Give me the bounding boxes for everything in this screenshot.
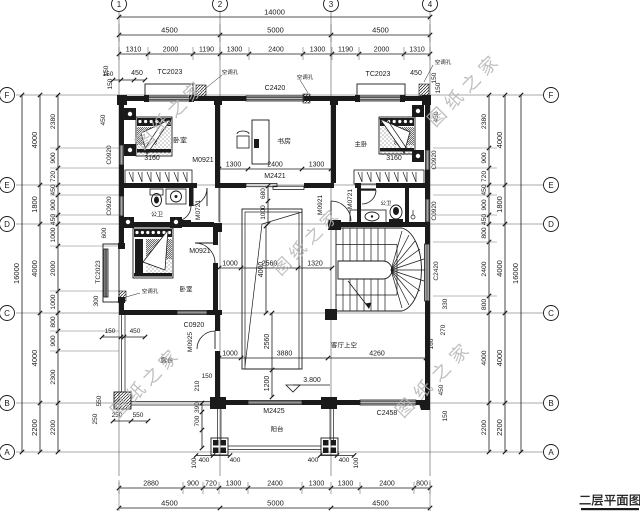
svg-text:160: 160	[428, 338, 435, 349]
room label study	[277, 138, 290, 144]
svg-text:M0925: M0925	[187, 332, 194, 352]
column at D/vestibule	[213, 223, 222, 232]
column top-left corner	[117, 95, 127, 105]
exterior wall left (axis 1)	[119, 96, 124, 145]
svg-text:M2421: M2421	[264, 173, 286, 180]
svg-text:C2420: C2420	[265, 85, 286, 92]
svg-text:4000: 4000	[481, 350, 488, 365]
window C0920 on axis C wall	[177, 311, 207, 315]
svg-text:150: 150	[103, 71, 114, 78]
room label bedroom1	[174, 137, 187, 143]
interior wall axis E	[119, 183, 197, 188]
svg-text:900: 900	[187, 481, 199, 488]
overall top dimension 14000	[119, 16, 430, 18]
axis grid line D (horizontal)	[16, 223, 543, 225]
window C2420 (top wall)	[246, 96, 304, 101]
axis bubble 1 (top)	[112, 0, 127, 12]
svg-text:400: 400	[308, 457, 319, 464]
wardrobe bedroom1	[125, 170, 192, 184]
staircase lower treads	[342, 279, 344, 311]
axis grid line E (horizontal)	[16, 184, 543, 186]
axis bubble A (left)	[0, 445, 15, 460]
room label bedroom2	[180, 286, 192, 292]
watermark lower-right	[394, 342, 470, 419]
room label bathroom2	[381, 200, 391, 205]
balcony front rail	[228, 445, 321, 447]
svg-text:B: B	[548, 399, 553, 408]
svg-text:M2425: M2425	[263, 408, 285, 415]
svg-text:2400: 2400	[267, 481, 283, 488]
svg-text:680: 680	[260, 188, 267, 199]
svg-text:1310: 1310	[409, 47, 425, 54]
svg-text:2000: 2000	[163, 47, 179, 54]
svg-text:4500: 4500	[161, 499, 178, 508]
axis bubble 4 (top)	[423, 0, 438, 12]
interior vdim 4000 (void)	[265, 226, 267, 313]
svg-text:2000: 2000	[50, 261, 57, 276]
svg-text:4500: 4500	[372, 26, 389, 35]
hatched column stair/D	[328, 220, 341, 230]
bathroom1 wall (vertical)	[189, 188, 194, 206]
svg-text:D: D	[548, 220, 554, 229]
wall bedroom1/study (vertical)	[215, 101, 220, 183]
svg-text:4000: 4000	[30, 132, 39, 149]
svg-text:A: A	[4, 448, 10, 457]
bedroom2 right wall (vertical)	[213, 227, 218, 245]
svg-text:4500: 4500	[372, 499, 389, 508]
title: second floor plan	[580, 495, 640, 506]
window C0920 right upper	[426, 150, 430, 170]
svg-text:16000: 16000	[12, 263, 21, 284]
watermark right-upper	[426, 54, 499, 128]
bottom dimension chain 2880..800	[119, 487, 430, 489]
staircase direction arrow	[348, 281, 369, 308]
exterior wall right (axis 4)	[425, 96, 430, 150]
bed master	[379, 117, 415, 154]
axis grid line B (horizontal)	[16, 402, 543, 404]
room label balcony	[271, 426, 283, 432]
right overall dimension 16000	[520, 95, 522, 452]
axis grid line C (horizontal)	[16, 312, 543, 314]
svg-text:800: 800	[481, 299, 488, 311]
column B3 (black)	[321, 397, 337, 409]
balcony column left (4 dots)	[211, 438, 228, 455]
svg-text:1800: 1800	[495, 196, 504, 213]
svg-text:TC2023: TC2023	[158, 69, 183, 76]
svg-text:C2420: C2420	[433, 261, 440, 281]
interior dim row study 1300/2400/1300	[219, 168, 331, 170]
svg-text:400: 400	[199, 457, 210, 464]
svg-text:F: F	[549, 91, 554, 100]
bay window TC2023 left wall	[103, 244, 119, 302]
svg-text:C0920: C0920	[106, 196, 113, 216]
svg-text:450: 450	[410, 70, 422, 77]
interior vdim 390/700 (balcony)	[201, 403, 203, 448]
axis bubble E (left)	[0, 178, 15, 193]
svg-text:2400: 2400	[268, 47, 284, 54]
svg-text:2200: 2200	[481, 420, 488, 435]
room label bathroom1	[151, 211, 162, 216]
svg-text:1300: 1300	[310, 47, 326, 54]
interior dim row living 1000/3880/4260	[219, 357, 426, 359]
exterior wall top (axis F)	[119, 96, 148, 101]
window C0920 left lower	[120, 196, 124, 216]
svg-text:D: D	[4, 220, 10, 229]
watermark center	[272, 208, 340, 276]
staircase upper treads	[342, 228, 344, 261]
washbasin bathroom1	[166, 189, 186, 204]
staircase inner lines	[336, 244, 397, 246]
AC hole symbol mid	[303, 94, 310, 103]
staircase outer boundary	[336, 228, 421, 311]
svg-text:450: 450	[131, 70, 143, 77]
svg-text:1800: 1800	[30, 196, 39, 213]
void railing (stairwell opening)	[242, 209, 302, 369]
svg-text:900: 900	[50, 335, 57, 347]
svg-text:720: 720	[50, 171, 57, 183]
staircase winder treads	[391, 231, 402, 270]
svg-text:3: 3	[329, 0, 334, 9]
svg-text:900: 900	[481, 199, 488, 211]
svg-text:2880: 2880	[143, 481, 159, 488]
toilet bathroom2	[390, 205, 402, 219]
svg-text:B: B	[4, 399, 9, 408]
interior vdim 680/1000	[267, 186, 269, 224]
wall study/master (vertical)	[331, 101, 336, 183]
door M0921 bedroom1	[189, 188, 207, 206]
window C2458 on axis B wall	[360, 400, 416, 405]
svg-text:150: 150	[105, 328, 116, 335]
svg-text:16000: 16000	[511, 263, 520, 284]
room label living void	[331, 342, 356, 348]
svg-text:2000: 2000	[374, 47, 390, 54]
svg-text:2560: 2560	[264, 334, 271, 350]
svg-text:2400: 2400	[267, 162, 283, 169]
axis bubble C (left)	[0, 306, 15, 321]
void diagonal	[245, 212, 302, 366]
svg-text:2380: 2380	[481, 114, 488, 129]
svg-text:800: 800	[481, 227, 488, 239]
svg-text:900: 900	[50, 199, 57, 211]
svg-text:E: E	[4, 181, 9, 190]
svg-text:1320: 1320	[307, 261, 323, 268]
svg-text:2400: 2400	[379, 481, 395, 488]
svg-text:2380: 2380	[50, 114, 57, 129]
svg-text:250: 250	[92, 413, 99, 424]
column top study-right	[330, 96, 338, 105]
svg-text:210: 210	[194, 380, 201, 391]
left minor dimension column	[57, 95, 59, 452]
svg-text:4000: 4000	[495, 260, 504, 277]
floor drain bathroom2	[411, 215, 415, 219]
watermark lower-left	[109, 348, 179, 419]
svg-text:1300: 1300	[309, 162, 325, 169]
interior wall axis D left	[119, 222, 214, 227]
window C0920 right lower	[426, 199, 430, 222]
bottom dimension row 4500/5000/4500	[119, 507, 430, 509]
svg-text:1310: 1310	[126, 47, 142, 54]
svg-text:400: 400	[339, 457, 350, 464]
balcony column right (4 dots)	[321, 438, 338, 455]
axis bubble B (right)	[544, 396, 559, 411]
door M0721 bathroom1	[176, 206, 191, 221]
toilet bathroom1	[150, 189, 163, 195]
svg-text:150: 150	[202, 373, 213, 380]
svg-text:800: 800	[416, 481, 428, 488]
svg-text:2200: 2200	[30, 419, 39, 436]
svg-text:150: 150	[431, 72, 438, 83]
bay window TC2023 top-right	[357, 84, 405, 97]
terrace parapet left	[121, 315, 123, 392]
bathroom2 left wall (vertical)	[357, 188, 361, 222]
column top-right corner	[422, 95, 431, 105]
door M0921 bedroom2	[195, 243, 215, 263]
svg-text:150: 150	[435, 82, 442, 93]
svg-text:100: 100	[191, 457, 198, 468]
svg-text:5000: 5000	[267, 499, 284, 508]
axis bubble F (left)	[0, 88, 15, 103]
axis grid line A (horizontal)	[16, 451, 543, 453]
interior dim row hall 1000/2560/1320	[219, 267, 332, 269]
staircase bottom-left column	[326, 310, 336, 320]
interior vdim 2560/1200	[271, 313, 273, 397]
svg-text:4000: 4000	[30, 350, 39, 367]
svg-text:900: 900	[481, 152, 488, 164]
svg-text:1000: 1000	[50, 227, 57, 242]
svg-text:800: 800	[50, 316, 57, 328]
room label terrace	[161, 357, 173, 363]
svg-text:1300: 1300	[226, 162, 242, 169]
svg-text:2: 2	[218, 0, 223, 9]
svg-text:C0920: C0920	[431, 150, 438, 170]
svg-text:C0920: C0920	[106, 145, 113, 165]
axis bubble D (right)	[544, 217, 559, 232]
svg-text:C: C	[4, 309, 10, 318]
column B4 corner (black)	[418, 400, 430, 410]
svg-text:C0920: C0920	[431, 201, 438, 221]
svg-text:C0920: C0920	[184, 322, 205, 329]
svg-text:1000: 1000	[260, 205, 267, 220]
svg-text:M0921: M0921	[192, 157, 214, 164]
svg-text:450: 450	[100, 114, 107, 125]
axis bubble 3 (top)	[324, 0, 339, 12]
svg-text:450: 450	[481, 214, 488, 226]
wall axis C (bedroom2 bottom)	[119, 310, 177, 315]
level marker 3.800	[286, 385, 300, 392]
bed bedroom1	[136, 117, 172, 156]
axis bubble 2 (top)	[213, 0, 228, 12]
svg-text:2300: 2300	[50, 369, 57, 384]
svg-text:450: 450	[50, 214, 57, 226]
svg-text:2200: 2200	[495, 419, 504, 436]
svg-text:1300: 1300	[338, 481, 354, 488]
svg-text:3.800: 3.800	[303, 377, 321, 384]
svg-text:4000: 4000	[495, 350, 504, 367]
wardrobe master	[354, 170, 424, 184]
bay window TC2023 top-left	[145, 84, 193, 97]
top dimension row 1310..1310	[119, 53, 430, 55]
axis bubble C (right)	[544, 306, 559, 321]
svg-text:3160: 3160	[144, 155, 160, 162]
svg-text:720: 720	[481, 171, 488, 183]
door M0921 master	[331, 201, 351, 221]
svg-text:TC2023: TC2023	[95, 260, 102, 284]
svg-text:TC2023: TC2023	[366, 71, 391, 78]
AC hole label bedroom2	[142, 288, 158, 293]
svg-text:720: 720	[205, 481, 217, 488]
vestibule line	[218, 188, 220, 222]
axis grid line 2 (vertical)	[219, 12, 221, 476]
svg-text:4500: 4500	[161, 26, 178, 35]
right minor dimension column	[488, 95, 490, 452]
bathroom2 shower partition	[405, 188, 409, 222]
column B2 (black)	[210, 397, 226, 409]
door M0721 bathroom2	[362, 190, 376, 204]
balcony side rail right	[333, 409, 335, 440]
svg-text:M0721: M0721	[195, 200, 202, 220]
svg-text:1190: 1190	[338, 47, 353, 54]
svg-text:270: 270	[440, 324, 447, 335]
axis grid line 1 (vertical)	[118, 12, 120, 476]
AC hole symbol left	[196, 85, 206, 97]
hall/terrace wall (vertical, with M0925 opening)	[215, 315, 220, 331]
terrace parapet corner column (hatched)	[114, 392, 131, 409]
svg-text:4000: 4000	[30, 260, 39, 277]
svg-text:1190: 1190	[199, 47, 214, 54]
door-window M2425 on axis B wall	[248, 401, 302, 405]
axis grid line 3 (vertical)	[330, 12, 332, 476]
svg-text:A: A	[548, 448, 554, 457]
AC hole label top-right	[435, 59, 451, 64]
svg-text:700: 700	[194, 415, 201, 426]
svg-text:1: 1	[117, 0, 122, 9]
window C2420 right (stair)	[425, 244, 430, 301]
interior wall axis D right	[328, 222, 430, 227]
column top study-left	[214, 96, 222, 105]
axis bubble B (left)	[0, 396, 15, 411]
svg-text:450: 450	[438, 384, 445, 395]
svg-text:4: 4	[428, 0, 433, 9]
svg-text:550: 550	[133, 412, 144, 419]
svg-text:1300: 1300	[309, 481, 325, 488]
left major dimension column	[39, 95, 41, 452]
svg-text:C: C	[548, 309, 554, 318]
terrace top dims 150/450	[102, 336, 145, 338]
svg-text:1300: 1300	[226, 481, 242, 488]
bed bedroom2	[133, 228, 173, 278]
room label master bedroom	[355, 141, 367, 147]
AC hole bedroom2	[119, 291, 126, 301]
svg-text:E: E	[548, 181, 553, 190]
door M0925 terrace	[197, 331, 215, 349]
svg-text:4260: 4260	[369, 351, 385, 358]
axis grid line F (horizontal)	[16, 94, 543, 96]
svg-text:1000: 1000	[50, 294, 57, 309]
top dimension row 4500/5000/4500	[119, 34, 430, 36]
wall axis B segments	[226, 400, 248, 405]
svg-text:F: F	[5, 91, 10, 100]
svg-text:330: 330	[442, 298, 449, 309]
svg-text:2200: 2200	[50, 420, 57, 435]
svg-text:M0921: M0921	[317, 195, 324, 215]
svg-text:5000: 5000	[267, 26, 284, 35]
svg-text:400: 400	[230, 457, 241, 464]
desk study	[252, 120, 269, 164]
staircase handrail island	[338, 261, 392, 279]
svg-text:M0721: M0721	[347, 189, 354, 209]
svg-text:390: 390	[194, 402, 201, 413]
svg-text:600: 600	[101, 227, 108, 238]
svg-text:C2458: C2458	[377, 410, 398, 417]
right major dimension column	[504, 95, 506, 452]
window C0920 left upper	[120, 145, 124, 165]
svg-text:450: 450	[50, 184, 57, 196]
svg-text:450: 450	[481, 184, 488, 196]
svg-text:1200: 1200	[264, 376, 271, 392]
axis bubble D (left)	[0, 217, 15, 232]
terrace parapet bottom	[131, 401, 210, 403]
AC hole symbol right	[419, 84, 429, 96]
axis bubble E (right)	[544, 178, 559, 193]
svg-text:450: 450	[130, 328, 141, 335]
axis grid line 4 (vertical)	[429, 12, 431, 476]
svg-text:2400: 2400	[481, 261, 488, 276]
axis bubble F (right)	[544, 88, 559, 103]
svg-text:3880: 3880	[277, 351, 293, 358]
chair study	[237, 136, 249, 148]
balcony bottom dims 400	[196, 455, 230, 457]
svg-text:1000: 1000	[222, 351, 238, 358]
svg-text:100: 100	[353, 457, 360, 468]
sliding door M2421 on axis E	[246, 184, 277, 187]
svg-text:M0921: M0921	[189, 248, 211, 255]
svg-text:4000: 4000	[258, 262, 265, 278]
column C3 (black)	[325, 309, 337, 320]
AC hole label top-mid	[297, 74, 313, 79]
svg-text:900: 900	[50, 152, 57, 164]
svg-text:1000: 1000	[222, 261, 238, 268]
svg-text:14000: 14000	[264, 8, 285, 17]
watermark upper-left	[134, 80, 204, 151]
washbasin bathroom2	[350, 210, 386, 223]
svg-text:300: 300	[93, 295, 100, 306]
balcony side rail left	[217, 409, 219, 440]
axis bubble A (right)	[544, 445, 559, 460]
AC hole label top-left	[222, 69, 238, 74]
svg-text:550: 550	[96, 395, 103, 406]
svg-text:1300: 1300	[227, 47, 243, 54]
svg-text:3160: 3160	[386, 155, 402, 162]
svg-text:4000: 4000	[495, 132, 504, 149]
left overall dimension 16000	[21, 95, 23, 452]
svg-text:150: 150	[442, 410, 449, 421]
